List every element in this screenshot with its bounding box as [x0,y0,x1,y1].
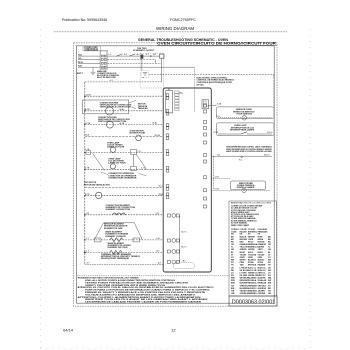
callout pointer [129,100,136,109]
board relay row 3 [167,250,179,254]
junction dot breaker [84,252,86,254]
callout diagonal right [139,173,147,176]
meat probe box [230,181,265,190]
svg-text:SMT.T: SMT.T [77,73,84,75]
svg-text:12: 12 [171,327,176,332]
svg-text:28.B: 28.B [159,194,164,196]
convection element symbol [112,213,125,215]
board connector J4 shell [166,91,173,113]
switch S3 [241,132,247,134]
wire breaker row [85,251,163,253]
notes separator line [77,275,230,277]
lamp socket link [132,155,134,167]
top wire L1 chain [107,55,159,57]
diagonal selector wire [93,153,105,170]
svg-text:D0003063 02/001: D0003063 02/001 [232,300,275,306]
wire lamp1 row [85,152,163,154]
oven light switch box [216,123,274,135]
svg-text:4.7A: 4.7A [217,103,222,106]
svg-text:JAUNE: JAUNE [258,246,265,249]
svg-text:NARANJA: NARANJA [248,243,258,246]
convection element text [106,205,136,211]
thermal breaker text [101,253,141,260]
board pin column P4 dashed [175,91,179,111]
bake zigzag [110,238,124,242]
neutral wire across [149,74,274,76]
main line text block [83,46,101,51]
lamp L3 with cross [242,116,247,121]
svg-text:CONNECTEUR OPERATEUR: CONNECTEUR OPERATEUR [108,177,137,180]
wire probe row [211,189,242,191]
svg-text:BLOC DE RACCORD: BLOC DE RACCORD [97,76,116,79]
svg-text:AZUL OB: AZUL OB [248,269,257,272]
svg-text:ELEMENT DE FOUR: ELEMENT DE FOUR [108,247,128,249]
oven light switch text [230,125,255,131]
element terminal right [133,238,140,242]
wire TCO to ground [141,59,143,71]
wire bottom row [85,263,163,265]
small box lamp1 left [86,150,91,154]
legend notes [231,206,263,225]
neutral wire drop right [273,75,275,107]
junction marks [241,156,243,158]
vertical dashed wire into control [193,67,195,112]
motor M2 [106,121,113,128]
meat probe text [237,182,255,189]
oven control board U1 [163,88,211,272]
svg-text:WIRING DIAGRAM: WIRING DIAGRAM [156,26,194,31]
svg-text:LAMPE DU FOUR: LAMPE DU FOUR [107,146,125,149]
wire N to right [107,59,155,61]
note text block [226,145,272,153]
THE TWO SCHEMATIC OUTPUT label [133,48,155,52]
wire lamp2 row [85,168,163,170]
svg-text:RLY 2: RLY 2 [181,246,187,248]
wire labels at line input [77,54,84,75]
svg-text:GRAY: GRAY [240,256,246,259]
switch S1 [117,54,123,56]
oven lamp 2 text [108,157,126,164]
svg-text:BLA/NEG: BLA/NEG [248,277,257,280]
oven motor text [130,131,146,135]
board relay row 2 [167,239,179,243]
board relay row 1 [167,214,179,218]
ground G2 [143,73,148,76]
top motor text [84,182,110,186]
svg-text:MOTEUR FOUR: MOTEUR FOUR [130,133,146,135]
drawing number box [229,296,277,306]
page dotted border right [309,29,311,348]
input wires [78,56,100,67]
svg-text:A.7B: A.7B [86,94,91,97]
left bus wire [84,82,86,264]
svg-text:04/14: 04/14 [63,327,74,332]
page dotted border bottom [41,347,311,349]
svg-text:TAN: TAN [240,264,244,267]
wire element row [85,214,163,216]
thermal breaker symbol [110,250,123,254]
svg-text:WIRE CODE CHART: WIRE CODE CHART [231,224,250,227]
svg-text:RLY 1: RLY 1 [181,231,187,233]
svg-text:INTERRUPTEUR LAMPE: INTERRUPTEUR LAMPE [230,129,255,132]
svg-text:OVEN CIRCUIT//CIRCUITO DE HORN: OVEN CIRCUIT//CIRCUITO DE HORNO//CIRCUIT… [157,42,277,46]
thermal fuse TCO (filled) [141,55,144,59]
svg-text:MOTOR DE VENTILACION: MOTOR DE VENTILACION [84,183,110,186]
wire bake row [85,239,163,241]
lamp L2 [110,164,115,169]
wire through M2 [85,123,163,125]
oven lamp 1 text [107,141,125,148]
svg-text:9) VOIR MANUEL: 9) VOIR MANUEL [231,221,248,224]
bus junction dots [84,95,86,240]
title line 2 underline [157,44,277,46]
connector caption text [97,70,119,79]
header dashed underline [54,31,287,33]
lamp L1 [110,147,115,152]
legend table header [231,224,268,235]
callout diagonal left [100,172,108,175]
wire through M1 [85,110,163,112]
svg-text:VRT/JAU: VRT/JAU [258,284,267,287]
svg-text:1.7w: 1.7w [141,168,146,170]
svg-text:ABBREVIATIONS OF COLORS/COLORE: ABBREVIATIONS OF COLORS/COLORES [231,202,272,205]
svg-text:NR/BLAN: NR/BLAN [258,282,267,285]
board right pin column [204,104,207,208]
svg-text:B.7A: B.7A [86,122,91,125]
callout text MOTOR [138,104,148,110]
board relay row 4 [167,260,179,264]
svg-text:CORDON ALIM: CORDON ALIM [84,49,98,52]
svg-text:LAMPE DU FOUR: LAMPE DU FOUR [108,162,126,165]
svg-text:AZU/ROJ: AZU/ROJ [248,287,256,290]
convection fan 2 text [98,116,130,123]
wire row3 to right [107,62,161,64]
motor M3 [136,135,142,141]
service oven text [233,109,255,115]
svg-text:VENTILATEUR A CONVECTION: VENTILATEUR A CONVECTION [100,106,131,109]
connector operator text [108,172,137,179]
svg-text:BLACK: BLACK [240,235,247,238]
svg-text:2.7B: 2.7B [85,168,90,170]
wire 6.3 row [85,81,162,83]
svg-text:NO.: NO. [231,234,235,236]
svg-text:ORANGE: ORANGE [258,243,267,246]
wire down from X1 [161,59,163,82]
svg-text:CAFE: CAFE [248,238,254,241]
svg-text:DISJONCTEUR THERMIQUE: DISJONCTEUR THERMIQUE [101,258,130,260]
svg-text:Publication No: 5995643946: Publication No: 5995643946 [62,18,107,22]
wire through L3 [218,117,242,119]
svg-text:ELEMENT CONVECTION: ELEMENT CONVECTION [106,209,131,211]
lamp socket box row2 [131,166,137,170]
page dotted border left [41,29,311,348]
svg-text:BLANCO: BLANCO [248,259,257,262]
motor M4 [96,192,102,198]
board relay bus [179,216,181,263]
wire N elbow down [155,60,157,64]
trapezoid wire left [95,223,104,240]
svg-text:28.7A: 28.7A [154,134,160,137]
svg-text:A.7B: A.7B [85,108,90,111]
trapezoid top [104,222,135,224]
svg-text:AMA/NEG: AMA/NEG [248,290,257,293]
wire 4.7A control to service [208,105,216,107]
wire note row [211,155,272,157]
svg-text:M.Au: M.Au [120,108,126,111]
svg-text:P.7B: P.7B [214,132,219,134]
lamp socket box row1 [131,149,137,154]
junction dot [150,55,151,56]
probe sensor P1 [242,188,246,192]
svg-text:24 VDC: 24 VDC [197,83,205,86]
svg-text:FGMC2765PFC: FGMC2765PFC [170,18,196,22]
svg-text:AVANT DE REMPLACER LE CONTROLE: AVANT DE REMPLACER LE CONTROLE VERIFIER … [226,150,272,153]
switch S2 [129,54,135,56]
svg-text:N1.7v: N1.7v [267,132,273,134]
wire PE to right [107,66,194,68]
svg-text:AZUL: AZUL [248,251,254,254]
svg-text:JAU/NR: JAU/NR [258,290,266,293]
right bus short [212,156,214,190]
electronic oven control text [197,77,235,86]
svg-text:A.7A: A.7A [120,122,125,125]
bake element text [108,242,132,249]
schematic outer border [74,43,278,306]
wire row top of fan box [85,95,163,97]
svg-text:HAVANE: HAVANE [258,264,266,267]
trapezoid wire right [134,223,142,240]
schematic inner border [77,46,275,303]
svg-text:LES ERREURS DE CABLAGE PEUVENT: LES ERREURS DE CABLAGE PEUVENT CAUSER UN… [85,301,202,304]
wire top motor row 1 [85,186,163,188]
diagonal to right [136,155,146,170]
svg-text:m: m [142,77,144,79]
svg-text:NEG/BLA: NEG/BLA [248,282,257,285]
legend table rows [231,235,272,295]
svg-text:TABLEAU: TABLEAU [138,107,148,110]
svg-text:A.C: A.C [183,259,187,262]
svg-text:BLANC: BLANC [258,259,265,262]
convection fan box [83,100,129,114]
svg-text:ORG/NR: ORG/NR [258,293,266,295]
svg-text:VER/AMA: VER/AMA [248,284,257,287]
legend box [229,201,276,296]
board left pin column [166,94,169,199]
svg-text:NAR/NEG: NAR/NEG [248,292,257,295]
broiler element text [104,224,129,238]
element terminal left [94,238,101,242]
svg-text:ELEMENT CUISSON: ELEMENT CUISSON [106,236,126,238]
ground G2 dashed enclosure [141,70,149,77]
svg-text:ELEMENT DE GRIL: ELEMENT DE GRIL [104,228,124,230]
protector dashed enclosure [140,53,163,88]
svg-text:B.7B: B.7B [85,194,90,196]
svg-text:SCHEMATIC OUTPUT: SCHEMATIC OUTPUT [133,49,155,52]
notes text block [78,277,214,304]
convection fan text [100,101,132,108]
svg-text:5.1B: 5.1B [215,177,220,179]
wire top motor row 2 [85,195,163,197]
terminal block pins [101,55,106,68]
motor M1 [106,107,114,115]
svg-text:ROSA: ROSA [248,261,254,264]
svg-text:5.1B: 5.1B [215,189,220,191]
board loop dashed [173,263,194,269]
chassis ground [91,67,96,74]
svg-text:N1.7v: N1.7v [264,154,270,156]
board sub connector J2 [202,100,209,109]
wire oven motor row [85,135,163,137]
wire probe row upper [211,177,230,179]
svg-text:N.A: N.A [85,134,89,137]
terminal block TB1 [100,50,107,69]
component X1 top right [160,54,164,58]
service oven box [216,107,274,118]
